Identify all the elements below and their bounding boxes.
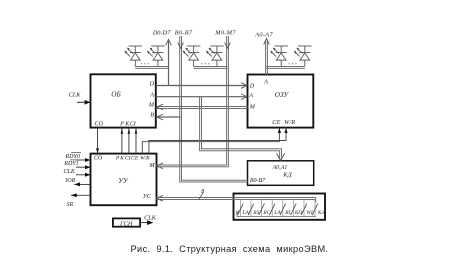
LED indicator HL6 on A bus [294, 46, 312, 67]
wire УС keyboard bus double [157, 197, 316, 199]
arrow W/R up solid [284, 128, 287, 133]
svg-text:A: A [248, 92, 253, 99]
wire P from УУ up to OB [121, 128, 123, 154]
svg-text:IOR: IOR [64, 178, 75, 184]
wire RDY0 into УУ [76, 159, 91, 161]
wire D bus horizontal OB to ОЗУ [156, 85, 247, 87]
svg-text:А0-А7: А0-А7 [254, 31, 273, 38]
keyboard switch levers [238, 204, 318, 215]
LED indicator HL1 on D bus [124, 46, 142, 67]
arrow up D0-D7 [166, 39, 172, 45]
svg-text:D: D [149, 80, 155, 87]
keyboard bus right end down tick [315, 198, 317, 203]
svg-text:CO: CO [94, 156, 103, 162]
svg-text:CLK: CLK [64, 169, 76, 175]
wire A0,A1 from A bus to КД double [200, 97, 280, 160]
arrow CO down [96, 148, 99, 153]
arrow down into КД [277, 154, 285, 161]
svg-text:CLK: CLK [69, 92, 82, 99]
overline RDY1 [70, 159, 80, 161]
arrow into ОЗУ D [241, 83, 247, 89]
block УУ (control unit) [91, 154, 157, 206]
svg-text:W/R: W/R [140, 156, 150, 162]
svg-text:RD: RD [294, 210, 302, 216]
wire M bus horizontal double line [157, 106, 248, 108]
rail of B LED group double [194, 66, 228, 68]
LED indicator HL4 on B bus [206, 46, 224, 67]
bus M0-M7 vertical double line [157, 36, 227, 165]
arrow into OB M [157, 104, 163, 110]
svg-text:CE W/R: CE W/R [272, 119, 295, 126]
wire W/R from УУ to ОЗУ [149, 128, 286, 153]
bus D0-D7 vertical from OB D output up to LEDs [168, 41, 170, 86]
svg-text:А0,А1: А0,А1 [272, 165, 288, 171]
svg-text:A: A [263, 79, 268, 86]
direction arrow down on M bus [225, 43, 231, 49]
svg-text:К: К [119, 156, 124, 162]
wire CI from УУ up to OB [135, 128, 137, 154]
arrow IOR solid left [74, 182, 80, 186]
rail of D LED group double [135, 66, 168, 68]
keyboard key labels [235, 210, 325, 216]
arrow CLK solid [85, 100, 91, 105]
arrow SR solid left [71, 193, 77, 197]
svg-text:CO: CO [95, 121, 104, 127]
svg-text:8: 8 [201, 189, 204, 195]
svg-text:M: M [148, 101, 155, 108]
block ОЗУ (RAM) [248, 75, 314, 128]
dots between D LEDs [141, 63, 149, 64]
overline RDY0 [71, 151, 81, 153]
svg-text:LA: LA [241, 210, 249, 216]
svg-text:КД: КД [282, 172, 292, 179]
wire K from УУ up to OB [128, 128, 130, 154]
LED indicator HL5 on A bus [270, 46, 288, 67]
arrow RDY1 solid [85, 165, 91, 169]
keyboard base line [237, 213, 316, 217]
wire CLK out of ГСН [140, 222, 152, 224]
dots between B LEDs [201, 63, 209, 64]
svg-text:ОБ: ОБ [111, 91, 121, 99]
block ГСН (clock generator) [113, 218, 140, 226]
wire CE from УУ to ОЗУ [142, 128, 279, 153]
arrow CLK ГСН solid [147, 220, 153, 225]
arrow into ОЗУ A [241, 94, 247, 100]
wire CO from OB down to УУ [97, 128, 99, 153]
arrow P up solid [121, 128, 124, 134]
svg-text:RDY0: RDY0 [65, 154, 80, 160]
bus B0-B7 vertical double line [180, 36, 248, 182]
svg-text:D: D [249, 83, 255, 90]
bus A0-A7 vertical from ОЗУ A output up to LEDs double [265, 41, 267, 75]
wire SR out of УУ [71, 194, 91, 196]
svg-text:М: М [249, 103, 256, 110]
svg-text:D0-D7: D0-D7 [152, 30, 171, 37]
wire IOR out of УУ [74, 183, 90, 185]
block КД (display decoder) [248, 161, 314, 186]
svg-text:CI: CI [130, 121, 137, 127]
arrow CE up solid [278, 128, 281, 133]
svg-text:Р: Р [119, 121, 124, 127]
wire CLK into УУ [76, 174, 91, 176]
block OB (ОБ processor unit) [91, 74, 156, 127]
svg-text:УУ: УУ [118, 177, 129, 185]
direction arrow down on B bus [178, 43, 184, 49]
keyboard key separators [240, 199, 315, 216]
wire CLK into OB [77, 101, 91, 103]
svg-text:A: A [149, 92, 154, 99]
LED indicator HL3 on B bus [183, 46, 201, 67]
svg-text:RC: RC [262, 210, 270, 216]
svg-text:М: М [148, 162, 155, 169]
svg-text:LA: LA [273, 210, 281, 216]
arrow into УУ УС [157, 195, 163, 201]
svg-text:В0-В7: В0-В7 [250, 178, 266, 184]
svg-text:SR: SR [66, 202, 73, 208]
svg-text:RS: RS [252, 210, 259, 216]
rail of A LED group double [266, 66, 305, 68]
svg-text:Р: Р [115, 156, 120, 162]
arrow CLK solid [85, 173, 91, 177]
dots between A LEDs [288, 63, 296, 64]
svg-text:ГСН: ГСН [119, 220, 133, 227]
slash 8 bits mark [199, 193, 203, 200]
wire A bus horizontal OB to ОЗУ [156, 96, 247, 98]
svg-text:ОЗУ: ОЗУ [275, 91, 290, 99]
svg-text:Рис. 9.1. Структурная схема: Рис. 9.1. Структурная схема микроЭВМ. [131, 244, 329, 254]
wire RDY1 into УУ [76, 166, 91, 168]
block keyboard [234, 194, 326, 220]
arrow K up solid [128, 128, 131, 134]
svg-text:УС: УС [143, 193, 152, 200]
LED indicator HL2 on D bus [147, 46, 165, 67]
svg-text:Кл: Кл [317, 210, 325, 216]
svg-text:B: B [150, 112, 154, 119]
svg-text:RI: RI [284, 210, 291, 216]
svg-text:RDY1: RDY1 [63, 161, 78, 167]
arrow into OB B [157, 114, 163, 120]
wire B stub into OB [157, 116, 181, 118]
svg-text:М0-М7: М0-М7 [214, 30, 236, 37]
arrow CI up solid [135, 128, 138, 134]
svg-text:CLK: CLK [144, 214, 157, 221]
arrow into УУ M [157, 163, 163, 169]
svg-text:В0-В7: В0-В7 [175, 30, 193, 37]
arrow up A0-A7 [264, 39, 270, 45]
arrow RDY0 solid [85, 158, 91, 162]
svg-text:CE: CE [131, 156, 139, 162]
